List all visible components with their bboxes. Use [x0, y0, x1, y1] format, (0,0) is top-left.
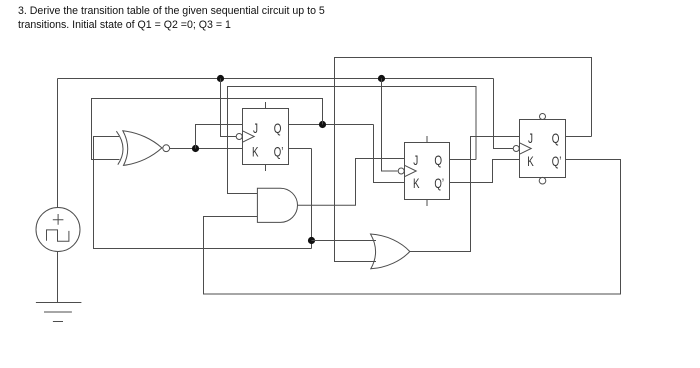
- U1 clear tick: [265, 165, 267, 172]
- wire Q1 to XNOR input: [92, 99, 323, 160]
- node clock junction 1: [217, 75, 224, 82]
- OR gate G3: [371, 234, 410, 269]
- U2 body: [405, 143, 450, 200]
- clock source V1: [36, 208, 80, 252]
- node Q1 junction: [319, 121, 326, 128]
- source body circle: [36, 208, 80, 252]
- svg-text:Q: Q: [552, 130, 560, 146]
- svg-text:K: K: [252, 143, 259, 159]
- wire Q3-bar feedback to AND input: [204, 160, 621, 295]
- wire Q2 output: [450, 159, 476, 161]
- square-wave symbol: [47, 230, 69, 241]
- U3 clock bubble: [513, 146, 519, 152]
- problem title text: [18, 4, 336, 32]
- svg-text:K: K: [413, 175, 420, 191]
- svg-text:K: K: [527, 153, 534, 169]
- wire Q1 to FF2 K: [374, 125, 405, 183]
- svg-text:J: J: [253, 120, 258, 136]
- U1 clock bubble: [236, 134, 242, 140]
- svg-text:J: J: [528, 130, 533, 146]
- U3 clock triangle: [520, 143, 532, 154]
- wire source to ground: [57, 252, 59, 303]
- svg-text:Q’: Q’: [274, 143, 284, 159]
- svg-text:Q’: Q’: [434, 175, 444, 191]
- wire clock to FF3: [494, 79, 514, 149]
- svg-text:Q: Q: [274, 120, 282, 136]
- flip-flop U2 (FF2): [398, 136, 449, 206]
- plus sign: [53, 214, 64, 225]
- wire Q3 output stub: [566, 136, 592, 138]
- U2 preset tick: [426, 136, 428, 143]
- wire OR input A: [312, 240, 377, 242]
- wire clock rail: [58, 78, 494, 80]
- wire clock to FF1: [221, 79, 237, 137]
- U2 clear tick: [426, 200, 428, 207]
- wire Q1-bar output stub: [289, 148, 312, 150]
- XNOR output bubble: [163, 145, 170, 152]
- node Q1-bar junction: [308, 237, 315, 244]
- U1 clock triangle: [243, 131, 255, 142]
- wire Q3 feedback to OR input: [335, 58, 592, 262]
- U1 body: [243, 109, 289, 165]
- flip-flop U1 (FF1): [236, 102, 288, 171]
- wire Q2 to AND input: [228, 87, 477, 194]
- wire Q2-bar to FF3 K: [450, 160, 520, 183]
- U3 preset bubble: [540, 114, 546, 120]
- wire XNOR output to K1: [170, 148, 243, 150]
- wire clock to FF2: [382, 79, 398, 172]
- wire Q1-bar to XNOR input: [94, 137, 312, 249]
- wire source to clock rail: [57, 79, 59, 208]
- wire Q1-bar down: [311, 149, 313, 249]
- node clock junction 2: [378, 75, 385, 82]
- wire OR output to FF3 J: [410, 137, 520, 252]
- wire Q1 output: [289, 124, 374, 126]
- node XNOR output junction: [192, 145, 199, 152]
- XNOR body: [123, 131, 162, 166]
- XNOR input arc: [116, 131, 123, 165]
- svg-text:J: J: [413, 152, 418, 168]
- ground: [36, 303, 82, 322]
- wire XNOR output to J1: [196, 125, 243, 149]
- XNOR gate G1: [116, 131, 169, 166]
- svg-text:Q: Q: [434, 152, 442, 168]
- AND gate G2: [257, 188, 297, 222]
- flip-flop U3 (FF3): [513, 114, 565, 185]
- U3 clear bubble: [539, 177, 546, 184]
- U3 body: [520, 120, 566, 178]
- U1 preset tick: [265, 102, 267, 109]
- svg-text:Q’: Q’: [552, 153, 562, 169]
- U2 clock bubble: [398, 168, 404, 174]
- wire AND output to FF2 J: [298, 159, 405, 206]
- U2 clock triangle: [405, 165, 417, 176]
